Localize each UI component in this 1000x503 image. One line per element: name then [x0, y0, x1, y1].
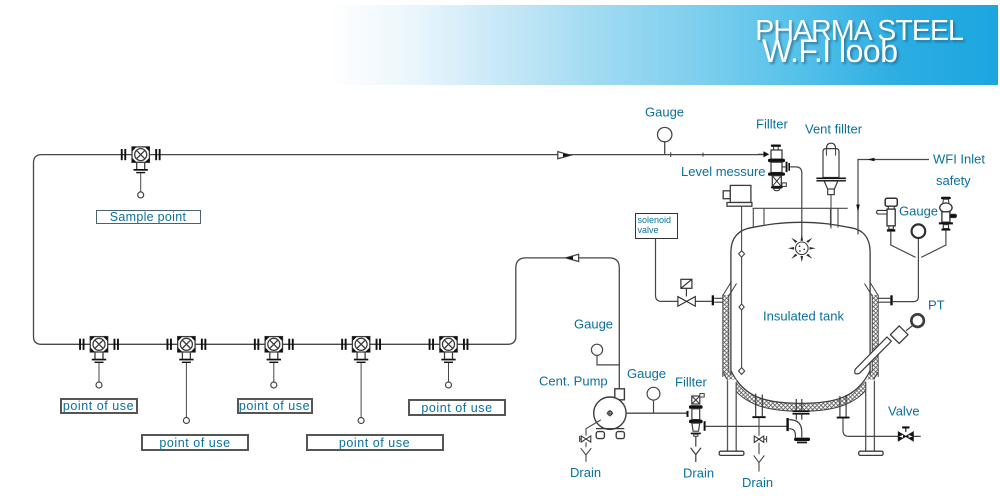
- spray ball: [788, 234, 816, 262]
- level measure transmitter head: [723, 185, 752, 206]
- svg-text:Insulated tank: Insulated tank: [763, 309, 844, 324]
- spray ball feed pipe from filter F1: [790, 167, 802, 241]
- PT sensor: [855, 314, 924, 374]
- svg-text:Vent fillter: Vent fillter: [805, 122, 863, 137]
- svg-text:Valve: Valve: [888, 404, 920, 419]
- svg-text:PT: PT: [928, 298, 945, 313]
- gauge G2 on pump suction riser: [591, 344, 619, 365]
- label box: point of use 1: [60, 398, 138, 414]
- side valve (Valve): [898, 426, 913, 441]
- wire: main loop (left vertical, top supply, bottom header, return riser to pump): [34, 155, 764, 390]
- tank bottom dish: [731, 371, 870, 404]
- svg-text:Fillter: Fillter: [675, 375, 707, 390]
- label box: point of use 3: [237, 398, 313, 414]
- point of use valve 3: [254, 337, 294, 363]
- point of use valve 4: [341, 337, 381, 363]
- label box: solenoid valve: [635, 213, 678, 239]
- line from right stub to side valve: [843, 419, 921, 437]
- tank centre outlet stub: [793, 399, 810, 420]
- line from right nozzle up to gauge assembly: [893, 239, 919, 302]
- svg-text:WFI Inlet: WFI Inlet: [933, 152, 985, 167]
- svg-text:Gauge: Gauge: [574, 317, 613, 332]
- point of use valve 1: [79, 337, 119, 363]
- point of use valve 5: [429, 337, 469, 363]
- junction ticks on top supply pipe: [671, 152, 703, 157]
- label box: point of use 4: [306, 434, 444, 451]
- tank left leg: [719, 380, 744, 456]
- gauge G3 on pump outlet: [647, 387, 660, 413]
- filter F1 (on supply line to spray ball): [758, 145, 790, 191]
- gauge G1 on top pipe: [658, 127, 672, 154]
- tank left nozzle: [712, 295, 723, 305]
- tank bottom-left drain stub: [752, 394, 765, 419]
- pump outlet pipe: [626, 412, 687, 414]
- outlet elbow to drain header: [786, 418, 810, 443]
- svg-text:Gauge: Gauge: [627, 366, 666, 381]
- WFI inlet line: [856, 158, 929, 235]
- filter F2 (pump discharge): [687, 394, 706, 462]
- gauge G4 (tank): [912, 224, 926, 238]
- solenoid valve actuator: [681, 279, 692, 296]
- label box: Sample point: [96, 210, 201, 224]
- dome support line with ticks: [753, 208, 848, 227]
- svg-text:Drain: Drain: [742, 475, 773, 490]
- label box: point of use 5: [408, 399, 506, 416]
- tank right nozzle: [879, 295, 893, 305]
- solenoid valve body: [678, 297, 695, 307]
- header gradient band: [0, 5, 998, 85]
- svg-text:Drain: Drain: [570, 465, 601, 480]
- header title line 2: [762, 33, 898, 70]
- insulation jacket bottom band: [727, 373, 875, 408]
- svg-text:Gauge: Gauge: [899, 204, 938, 219]
- svg-text:Cent. Pump: Cent. Pump: [539, 374, 608, 389]
- svg-text:Gauge: Gauge: [645, 105, 684, 120]
- sample point valve V0: [121, 147, 161, 173]
- drain header from filter to tank outlet elbow: [706, 425, 788, 427]
- solenoid valve branch line: [656, 237, 712, 301]
- insulation jacket side bands: [723, 282, 878, 378]
- flow arrow on return pipe: [566, 254, 579, 261]
- left stub drain line + valve + drain arrow: [754, 418, 767, 471]
- centrifugal pump P1: [594, 389, 626, 439]
- header title line 1: [755, 15, 963, 48]
- tank vessel shell with dome: [731, 222, 870, 375]
- vent filter: [816, 143, 846, 228]
- svg-text:Fillter: Fillter: [756, 117, 788, 132]
- label box: point of use 2: [141, 434, 249, 451]
- pump drain valve: [581, 436, 591, 442]
- WFI safety valve (right): [939, 197, 957, 231]
- svg-text:Drain: Drain: [683, 466, 714, 481]
- svg-text:safety: safety: [936, 173, 971, 188]
- point of use valve 2: [167, 337, 207, 363]
- level probe rod: [739, 206, 745, 374]
- tank bottom-right stub: [837, 395, 850, 419]
- sample point drop line: [140, 173, 142, 192]
- pump drain line: [580, 420, 601, 462]
- svg-text:Level messure: Level messure: [681, 164, 766, 179]
- safety sample valve (left of gauge): [877, 198, 898, 231]
- sample point port circle: [138, 192, 144, 198]
- left stub drain valve: [754, 436, 764, 442]
- flow arrow on top supply pipe: [558, 152, 571, 159]
- junction diagonals from safety valves: [891, 231, 946, 258]
- tank right leg: [859, 380, 883, 456]
